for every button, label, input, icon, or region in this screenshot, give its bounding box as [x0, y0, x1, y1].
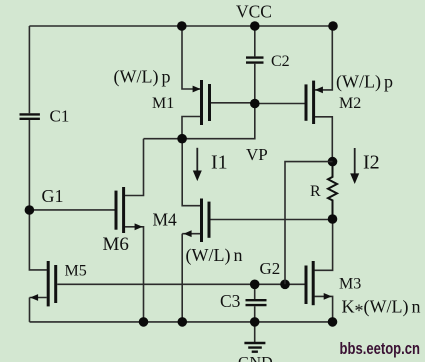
svg-text:M2: M2 — [339, 95, 361, 112]
node: R bottom junction — [328, 214, 338, 224]
svg-text:VCC: VCC — [236, 2, 272, 22]
label C1 — [50, 107, 70, 126]
wire G1 to M5 drain — [29, 210, 47, 270]
label G1 — [42, 186, 64, 206]
label (W/L)p for M2 — [336, 72, 393, 93]
node: ground rail junction M6 — [139, 317, 149, 327]
node G1 — [25, 205, 35, 215]
node A junction — [177, 134, 187, 144]
label VCC — [236, 2, 272, 22]
svg-text:C3: C3 — [220, 291, 241, 311]
wire VCC top rail — [29, 25, 333, 27]
label M2 — [339, 95, 361, 112]
svg-text:M3: M3 — [339, 276, 361, 293]
node: VCC junction — [250, 21, 260, 31]
label (W/L)p for M1 — [114, 67, 171, 88]
label C3 — [220, 291, 241, 311]
node: ground rail junction GND — [250, 317, 260, 327]
label K*(W/L)n for M3 — [342, 297, 421, 321]
wire bottom ground rail — [30, 321, 333, 323]
transistor M1 — [182, 26, 255, 139]
svg-text:I1: I1 — [211, 152, 228, 174]
label I2 — [363, 152, 380, 174]
label C2 — [271, 53, 290, 70]
svg-text:M5: M5 — [65, 263, 87, 280]
svg-text:G2: G2 — [260, 259, 281, 278]
wire left column (VCC to C1 to G1) — [28, 26, 30, 210]
svg-text:M4: M4 — [153, 210, 178, 230]
label M5 — [65, 263, 87, 280]
svg-text:G1: G1 — [42, 186, 64, 206]
label VP — [246, 145, 268, 164]
node VP — [250, 99, 260, 109]
label M1 — [152, 95, 174, 112]
label M4 — [153, 210, 178, 230]
label (W/L)n for M4 — [186, 245, 243, 266]
svg-text:VP: VP — [246, 145, 268, 164]
transistor M5 — [30, 261, 56, 322]
node: top rail right junction — [328, 21, 338, 31]
svg-text:M1: M1 — [152, 95, 174, 112]
label M3 — [339, 276, 361, 293]
capacitor C1 — [20, 114, 40, 118]
label GND — [238, 355, 273, 362]
watermark bbs.eetop.cn — [340, 340, 421, 358]
svg-text:C2: C2 — [271, 53, 290, 70]
svg-text:R: R — [310, 183, 321, 200]
current arrow I1 — [193, 148, 202, 181]
label I1 — [211, 152, 228, 174]
svg-text:(W/L)p: (W/L)p — [114, 67, 171, 88]
svg-text:(W/L)n: (W/L)n — [186, 245, 243, 266]
node: top rail left junction — [177, 21, 187, 31]
transistor M6 — [29, 139, 143, 322]
wire M5 gate / G2 net to M3 gate — [57, 283, 304, 285]
current arrow I2 — [350, 148, 359, 184]
node: C3 top junction — [250, 280, 260, 290]
node G2 — [280, 280, 290, 290]
svg-text:GND: GND — [238, 355, 273, 362]
resistor R — [328, 162, 337, 219]
wire node A rail (M6/M1/M4 drains to VP) — [144, 104, 255, 139]
transistor M4 — [182, 139, 332, 322]
svg-text:C1: C1 — [50, 107, 70, 126]
capacitor C3 — [246, 284, 267, 322]
node junction dots — [25, 21, 338, 327]
ground — [244, 322, 265, 352]
transistor M3 — [306, 219, 333, 322]
label M6 — [103, 234, 129, 255]
svg-text:(W/L)p: (W/L)p — [336, 72, 393, 93]
capacitor C2 — [246, 26, 264, 104]
node: ground rail junction M3 — [328, 317, 338, 327]
svg-text:bbs.eetop.cn: bbs.eetop.cn — [340, 340, 421, 358]
wire G2 vertical (R top to G2 node) — [285, 162, 333, 285]
label R — [310, 183, 321, 200]
svg-text:M6: M6 — [103, 234, 129, 255]
svg-text:I2: I2 — [363, 152, 380, 174]
label G2 — [260, 259, 281, 278]
node: ground rail junction M4 — [178, 317, 188, 327]
transistor M2 — [255, 26, 332, 162]
node: R top junction — [328, 157, 338, 167]
